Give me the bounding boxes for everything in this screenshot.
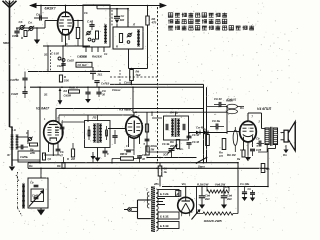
capacitor Cp001 bbox=[227, 98, 237, 102]
resistor R14 bbox=[43, 153, 52, 161]
capacitor Cp4B bbox=[210, 119, 224, 130]
svg-text:Cп 10Б: Cп 10Б bbox=[240, 182, 249, 186]
speaker SP bbox=[281, 122, 296, 151]
label box 6.3b bbox=[158, 212, 179, 219]
label Cp25 bbox=[67, 59, 74, 63]
svg-text:Cд: Cд bbox=[60, 150, 64, 154]
wire tuning gang dashed bbox=[157, 7, 159, 163]
text title line1 bbox=[168, 13, 227, 18]
coil L3 label bbox=[92, 116, 97, 120]
label Ld26 bbox=[6, 153, 10, 157]
ground f1 bbox=[199, 205, 205, 209]
label pins misc bbox=[44, 115, 259, 152]
svg-text:Cп7Б0: Cп7Б0 bbox=[101, 82, 110, 86]
wire w62 bbox=[62, 122, 85, 135]
label L3osc bbox=[132, 23, 136, 27]
svg-text:2Б: 2Б bbox=[43, 93, 47, 97]
ground mid b bbox=[85, 99, 91, 103]
wire tuning row bbox=[16, 27, 45, 29]
svg-text:Rд: Rд bbox=[57, 164, 61, 168]
wire dash v50 bbox=[50, 50, 52, 71]
svg-text:Cд25: Cд25 bbox=[57, 64, 64, 68]
wire bus corner bbox=[204, 84, 207, 163]
tube V1 label 6Ж2К bbox=[45, 6, 56, 10]
svg-text:Rд W: Rд W bbox=[120, 152, 128, 156]
svg-text:Vт: Vт bbox=[182, 182, 187, 186]
coil L-osc box bbox=[113, 27, 143, 49]
wire v112 bbox=[111, 159, 113, 163]
wire h46 bbox=[43, 45, 90, 46]
wire h87 bbox=[24, 86, 203, 88]
node avc arrow bbox=[43, 88, 72, 105]
wire band top bbox=[40, 168, 42, 179]
resistor R-a bbox=[76, 20, 79, 47]
wire bus drop b bbox=[116, 8, 118, 27]
capacitor C out bbox=[256, 137, 264, 153]
svg-text:Б 0.2Б: Б 0.2Б bbox=[160, 192, 169, 196]
label 28h bbox=[153, 182, 186, 186]
capacitor C147 bbox=[145, 139, 150, 141]
svg-text:0.05: 0.05 bbox=[256, 148, 262, 152]
resistor Rx470 bbox=[146, 16, 157, 25]
wire h71 dash bbox=[110, 70, 157, 86]
resistor Rk bbox=[237, 150, 245, 161]
ground L3 bbox=[94, 158, 100, 162]
svg-text:V3 6Б8С: V3 6Б8С bbox=[119, 107, 133, 111]
wire h71 bbox=[28, 71, 110, 73]
wire antenna lead bbox=[10, 7, 13, 166]
resistor RpW bbox=[112, 152, 142, 160]
tube V4 label bbox=[257, 107, 272, 111]
svg-text:Cп: Cп bbox=[248, 187, 252, 191]
capacitor C+ bbox=[90, 67, 110, 87]
tube V1 bbox=[58, 5, 74, 46]
resistor R3 bbox=[96, 31, 99, 39]
tube V2 label bbox=[36, 107, 50, 111]
tube V5 label bbox=[176, 191, 181, 197]
svg-text:Cд: Cд bbox=[102, 89, 106, 93]
coil Losc winding bbox=[137, 30, 140, 46]
capacitor C62 bbox=[55, 125, 64, 133]
svg-text:Rп: Rп bbox=[283, 153, 287, 157]
svg-text:Б 6.3Б: Б 6.3Б bbox=[160, 224, 169, 228]
svg-text:Cдт: Cдт bbox=[177, 147, 183, 151]
capacitor Cf2 bbox=[221, 187, 233, 205]
svg-text:Rп: Rп bbox=[219, 151, 223, 155]
svg-text:7Б0: 7Б0 bbox=[136, 73, 141, 77]
wire rect top bbox=[162, 186, 268, 198]
svg-text:Cп: Cп bbox=[104, 53, 108, 56]
resistor R1K bbox=[59, 75, 70, 83]
resistor Rp16M bbox=[203, 128, 209, 146]
transformer L3 bbox=[85, 121, 111, 148]
wire V1 grid in bbox=[45, 21, 58, 29]
svg-text:Cд: Cд bbox=[142, 153, 146, 157]
svg-text:Cд 4Б: Cд 4Б bbox=[162, 142, 170, 146]
svg-text:Kд: Kд bbox=[64, 89, 68, 93]
svg-text:C.47: C.47 bbox=[87, 20, 93, 24]
wire bus drop a bbox=[40, 5, 42, 18]
resistor R2K2W bbox=[197, 182, 229, 193]
svg-text:R: R bbox=[64, 75, 66, 79]
transformer T2 label bbox=[169, 111, 178, 115]
wire V1 plate out bbox=[73, 20, 83, 22]
svg-text:Cп: Cп bbox=[28, 21, 32, 25]
tube V4 bbox=[240, 113, 257, 155]
wire L2 pins bbox=[86, 47, 104, 52]
wire v4 plate bbox=[248, 113, 265, 129]
capacitor C141 bbox=[137, 153, 146, 163]
label extra bbox=[43, 11, 108, 68]
wire v40 bbox=[39, 86, 41, 162]
svg-text:470: 470 bbox=[151, 21, 157, 25]
svg-text:Cд 30: Cд 30 bbox=[192, 133, 200, 137]
wire h163 bbox=[28, 162, 238, 164]
capacitor Ck bbox=[250, 149, 255, 156]
tube V2 bbox=[44, 121, 63, 156]
ground antenna earth bbox=[9, 167, 15, 172]
wire V2 grid bbox=[17, 130, 28, 144]
wire top bus bbox=[30, 5, 161, 7]
wire dashed switch link bbox=[16, 175, 19, 181]
svg-text:28h: 28h bbox=[153, 182, 159, 186]
wire h157 bbox=[146, 157, 196, 159]
svg-text:R,2K/2W: R,2K/2W bbox=[197, 182, 209, 186]
svg-text:R: R bbox=[116, 45, 118, 49]
svg-text:Rп: Rп bbox=[29, 164, 33, 168]
svg-text:Cд750: Cд750 bbox=[10, 78, 19, 82]
svg-text:Cд1Б: Cд1Б bbox=[80, 55, 87, 59]
svg-text:Cд 4Б: Cд 4Б bbox=[212, 119, 220, 123]
ground v4k bbox=[245, 155, 251, 161]
svg-text:Rд 1M: Rд 1M bbox=[227, 153, 236, 157]
capacitor Ca1 bbox=[34, 13, 48, 21]
wire ot b+ bbox=[268, 145, 276, 151]
svg-text:Cдд: Cдд bbox=[227, 194, 232, 198]
transformer power T4 bbox=[147, 187, 158, 233]
wire v28 bbox=[27, 163, 29, 169]
capacitor C005 bbox=[51, 52, 66, 66]
label bus bbox=[124, 81, 132, 85]
capacitor C95 bbox=[96, 87, 106, 97]
trimmer C3 bbox=[86, 31, 95, 42]
wire osc feed bbox=[96, 5, 129, 27]
capacitor C128 bbox=[122, 150, 131, 156]
svg-text:Л4 Тр: Л4 Тр bbox=[169, 111, 178, 115]
wire v4 grid bbox=[227, 131, 240, 133]
svg-text:Cд: Cд bbox=[98, 69, 102, 73]
trimmer C12 bbox=[26, 131, 33, 141]
wire h118 bbox=[152, 117, 162, 119]
wire right drop bbox=[147, 5, 149, 69]
switch Sv bbox=[196, 157, 208, 169]
ground left a bbox=[34, 40, 40, 45]
label r163 bbox=[29, 164, 33, 168]
svg-text:Cдд: Cдд bbox=[205, 194, 210, 198]
ground h163 gnd bbox=[90, 152, 95, 160]
transformer T2 bbox=[164, 116, 189, 140]
capacitor Ct2 bbox=[250, 190, 255, 198]
svg-text:R: R bbox=[67, 157, 69, 161]
svg-text:Rд: Rд bbox=[203, 128, 207, 132]
resistor Rp20K bbox=[69, 86, 80, 94]
label 220v bbox=[146, 189, 148, 192]
svg-text:1Б: 1Б bbox=[164, 170, 167, 174]
wire h84 bbox=[110, 83, 204, 85]
capacitor Cp40 bbox=[214, 97, 226, 107]
svg-text:3Cп: 3Cп bbox=[163, 153, 168, 157]
svg-text:0.5: 0.5 bbox=[219, 154, 223, 158]
wire L3 gnd bbox=[97, 148, 99, 159]
svg-text:Rд2БK: Rд2БK bbox=[92, 54, 103, 58]
svg-text:Rд: Rд bbox=[170, 140, 174, 144]
wire osc drop bbox=[129, 49, 148, 85]
coil L2 winding bbox=[104, 25, 107, 43]
label R26K bbox=[77, 54, 103, 58]
svg-text:СВд: СВд bbox=[12, 34, 18, 38]
capacitor Cp20 bbox=[11, 88, 28, 98]
resistor R1 bbox=[21, 31, 27, 41]
svg-text:2Б0: 2Б0 bbox=[204, 197, 210, 201]
wire gang dash 2 bbox=[111, 10, 113, 26]
trimmer C1a bbox=[19, 20, 26, 30]
label Cost bbox=[112, 88, 121, 92]
svg-text:Rдд2K.2WБ: Rдд2K.2WБ bbox=[204, 219, 223, 223]
resistor Rp2W bbox=[227, 106, 244, 114]
wire L4 top bbox=[11, 127, 13, 135]
wire rect heater bbox=[182, 215, 190, 216]
wire left col bbox=[12, 149, 40, 160]
wire filt junctions bbox=[197, 186, 269, 215]
svg-text:2Б0: 2Б0 bbox=[226, 197, 232, 201]
wire ot bottom bbox=[258, 145, 267, 153]
capacitor C005b bbox=[103, 148, 110, 158]
svg-text:Б 6.3Б: Б 6.3Б bbox=[160, 214, 169, 218]
wire v227 bbox=[226, 106, 228, 133]
svg-text:Cд/5Б: Cд/5Б bbox=[20, 155, 28, 159]
ground band box bbox=[37, 208, 45, 215]
label box 6.3a bbox=[158, 190, 179, 197]
label sp bbox=[283, 145, 289, 157]
node arrow right bbox=[160, 3, 168, 8]
resistor R157 bbox=[146, 144, 158, 155]
svg-text:Vд6.2W: Vд6.2W bbox=[215, 182, 225, 186]
wire h168 bbox=[28, 168, 268, 170]
svg-text:47: 47 bbox=[59, 154, 63, 158]
capacitor Cf1 bbox=[199, 187, 211, 205]
svg-text:Lд: Lд bbox=[12, 128, 16, 132]
svg-text:Cд: Cд bbox=[55, 125, 59, 129]
capacitor Cp140 bbox=[76, 55, 92, 68]
svg-text:C: C bbox=[26, 131, 28, 135]
svg-text:Cд: Cд bbox=[84, 11, 88, 15]
wire t2 top bbox=[151, 112, 175, 117]
capacitor C47 bbox=[87, 20, 95, 31]
text title line3 bbox=[168, 25, 254, 30]
coil L4 bbox=[11, 135, 19, 149]
resistor Rv263 bbox=[261, 164, 270, 173]
resistor R12 bbox=[29, 143, 38, 155]
svg-text:Ж: Ж bbox=[6, 153, 10, 157]
svg-text:Cд0.01: Cд0.01 bbox=[227, 98, 237, 102]
svg-text:V4 6П1П: V4 6П1П bbox=[257, 107, 272, 111]
transformer output T3 bbox=[265, 127, 278, 146]
wire v133 bbox=[132, 86, 134, 112]
resistor R147 bbox=[141, 122, 149, 132]
wire v93 bbox=[92, 158, 94, 163]
svg-text:V2 6А07: V2 6А07 bbox=[36, 107, 50, 111]
capacitor C13 bbox=[17, 145, 28, 150]
svg-text:C: C bbox=[107, 152, 109, 156]
svg-text:Л3: Л3 bbox=[92, 116, 97, 120]
svg-text:2Б1: 2Б1 bbox=[97, 73, 103, 77]
switch band SB bbox=[18, 172, 49, 208]
tube V5 rectifier bbox=[178, 197, 194, 215]
trimmer C1b bbox=[28, 21, 34, 32]
resistor R2M bbox=[67, 143, 75, 161]
trimmer C4 bbox=[127, 33, 132, 44]
svg-text:Cд 30: Cд 30 bbox=[192, 140, 200, 144]
resistor Rv157 bbox=[158, 163, 167, 187]
switch SwB bbox=[162, 142, 183, 158]
capacitor C2 bbox=[14, 28, 19, 37]
ground tone2 bbox=[250, 198, 255, 202]
svg-text:C: C bbox=[146, 189, 148, 192]
svg-text:Rд1Б: Rд1Б bbox=[151, 144, 158, 148]
wire v268 bbox=[267, 151, 269, 187]
svg-text:6Ж2К?: 6Ж2К? bbox=[45, 6, 56, 10]
svg-text:Cд: Cд bbox=[256, 137, 260, 141]
wire dash into box bbox=[18, 208, 23, 216]
label sec marks bbox=[157, 199, 165, 205]
capacitor C88 bbox=[85, 87, 90, 99]
capacitor Cd30a bbox=[187, 133, 200, 138]
svg-text:30: 30 bbox=[102, 93, 105, 97]
node arrow left bbox=[29, 3, 37, 8]
svg-text:2Б: 2Б bbox=[43, 53, 47, 57]
label Rg bbox=[227, 153, 236, 157]
svg-text:C 0.05: C 0.05 bbox=[51, 52, 59, 56]
svg-text:Cд25: Cд25 bbox=[67, 59, 74, 63]
tube V3 label bbox=[119, 107, 133, 111]
wire h112 bbox=[133, 111, 227, 113]
wire V2 pins row bbox=[44, 154, 60, 156]
resistor Rosc bbox=[130, 70, 141, 81]
svg-text:Cд5М: Cд5М bbox=[64, 94, 72, 98]
capacitor C390 bbox=[114, 14, 125, 23]
svg-text:Cд20: Cд20 bbox=[11, 92, 18, 96]
wire L3 out bbox=[98, 115, 126, 129]
text title line2 bbox=[168, 19, 227, 24]
ground tone bbox=[242, 197, 248, 201]
label Rb bottom bbox=[204, 219, 223, 223]
antenna ANT bbox=[3, 1, 17, 8]
diode detector pair bbox=[188, 131, 227, 135]
ground f2 bbox=[221, 205, 227, 209]
svg-text:Rд20K: Rд20K bbox=[69, 86, 79, 90]
wire w147 bbox=[146, 112, 148, 152]
wire h106 bbox=[207, 106, 245, 108]
wire V2 plate bbox=[56, 109, 204, 122]
wire v238 bbox=[237, 162, 239, 187]
label det bbox=[196, 126, 204, 130]
label SVa bbox=[12, 34, 18, 38]
capacitor Cp750 bbox=[10, 72, 28, 88]
resistor Rp05 bbox=[219, 139, 226, 159]
connector mains plug bbox=[124, 200, 151, 219]
coil L4 label bbox=[12, 128, 16, 132]
wire h150 bbox=[147, 151, 172, 153]
svg-text:390: 390 bbox=[120, 18, 125, 22]
wire V3 bottom bbox=[124, 148, 134, 155]
svg-text:Cд: Cд bbox=[48, 157, 52, 161]
capacitor Ct bbox=[240, 182, 251, 197]
node heat arrow bbox=[192, 209, 201, 219]
svg-text:Cд 1Б0: Cд 1Б0 bbox=[78, 63, 87, 67]
svg-text:Cд: Cд bbox=[19, 20, 23, 24]
label box 5 bbox=[158, 222, 179, 229]
svg-text:5Мд: 5Мд bbox=[3, 41, 9, 45]
resistor Rg ellipse bbox=[226, 127, 237, 152]
svg-text:Cд: Cд bbox=[164, 167, 168, 171]
resistor R178 bbox=[169, 140, 180, 149]
svg-text:Cд: Cд bbox=[30, 181, 34, 185]
svg-text:Cд: Cд bbox=[36, 13, 40, 17]
capacitor C115 bbox=[112, 130, 117, 144]
resistor Rb1 bbox=[57, 157, 65, 169]
svg-text:Cдosc: Cдosc bbox=[112, 88, 121, 92]
label knob bbox=[163, 153, 168, 157]
capacitor C14 bbox=[56, 146, 64, 158]
box mixer parts bbox=[18, 151, 40, 162]
label V5 pins bbox=[178, 199, 194, 215]
capacitor Cd30b bbox=[187, 140, 200, 149]
wire v48 bbox=[47, 46, 49, 72]
coil L2 can bbox=[83, 5, 110, 47]
label tone bbox=[225, 185, 229, 189]
svg-text:Rд: Rд bbox=[136, 70, 140, 74]
resistor Rp26 bbox=[226, 99, 238, 109]
label 5Мд bbox=[3, 41, 9, 45]
svg-text:Cд 40: Cд 40 bbox=[214, 97, 222, 101]
wire left drop bbox=[36, 27, 37, 40]
wire if line b bbox=[59, 115, 134, 122]
wire v63 bbox=[62, 46, 64, 72]
tube V3 bbox=[126, 111, 143, 148]
resistor R2K bbox=[116, 34, 123, 49]
